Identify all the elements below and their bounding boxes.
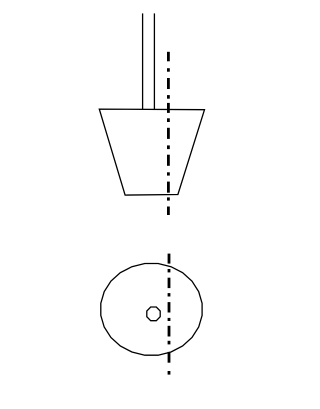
wire shaft left line (142, 13, 144, 109)
wire shaft right line (153, 13, 155, 109)
node centerline upper (dash-dot axis) (167, 52, 170, 215)
node centerline lower (dash-dot axis) (168, 254, 171, 375)
node cone body (front view trapezoid) (99, 109, 204, 195)
node hub hole (small octagon) (147, 307, 160, 321)
node pulley rim (top view circle, polygonized) (101, 264, 202, 356)
